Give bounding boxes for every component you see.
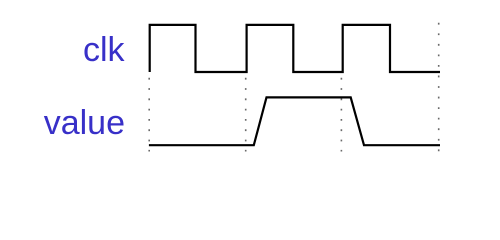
svg-text:value: value [44,104,125,142]
svg-text:clk: clk [83,31,126,69]
